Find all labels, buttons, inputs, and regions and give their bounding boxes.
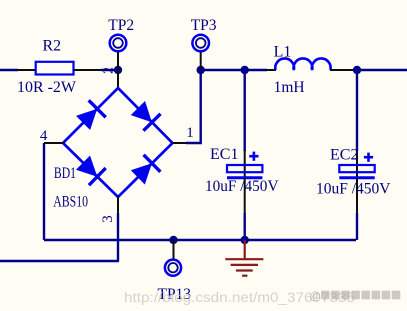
pin EC2 top xyxy=(356,150,358,178)
wire R2 to node TP2 xyxy=(101,69,118,71)
testpoint TP13 xyxy=(165,260,181,276)
testpoint TP3 xyxy=(192,35,209,52)
node EC2 junction xyxy=(353,66,361,74)
node ground junction xyxy=(241,236,249,244)
ground xyxy=(225,240,263,276)
svg-text:3: 3 xyxy=(100,215,116,223)
pin bridge 4 xyxy=(44,142,64,144)
svg-text:EC1: EC1 xyxy=(210,146,239,163)
wire EC2 node down xyxy=(356,70,358,151)
node EC1 junction xyxy=(241,66,249,74)
wire AC input left to R2 xyxy=(0,69,18,71)
pin bridge 2 xyxy=(117,70,119,89)
plus sign EC2 xyxy=(364,153,373,162)
node TP3 junction xyxy=(197,66,205,74)
watermark community badge xyxy=(310,291,401,303)
wire EC1 node to L1 xyxy=(245,69,267,71)
svg-text:L1: L1 xyxy=(274,43,292,60)
svg-text:BD1: BD1 xyxy=(54,165,76,182)
svg-text:ABS10: ABS10 xyxy=(53,193,88,210)
wire EC1 to bus xyxy=(243,213,245,240)
svg-text:10R -2W: 10R -2W xyxy=(17,79,77,96)
svg-text:1: 1 xyxy=(186,125,194,141)
wire pin3 down xyxy=(117,213,119,261)
wire TP3 node to EC1 node xyxy=(201,69,245,71)
testpoint TP2 xyxy=(110,35,127,52)
wire bottom bus xyxy=(44,239,356,241)
capacitor EC2 xyxy=(339,165,374,178)
capacitor EC1 xyxy=(227,165,262,178)
wire EC1 node down xyxy=(243,70,245,151)
pin TP13 xyxy=(173,240,175,259)
bridge BD1 diamond xyxy=(63,88,173,197)
plus sign EC1 xyxy=(249,152,258,161)
pin R2 left xyxy=(17,69,36,71)
diode D top-left xyxy=(76,100,106,130)
svg-text:TP3: TP3 xyxy=(191,17,217,34)
wire pin4 down to bottom bus xyxy=(43,143,45,240)
wire AC input 2 from left edge xyxy=(0,260,119,263)
svg-text:@: @ xyxy=(310,291,321,303)
wire L1 to right edge xyxy=(357,69,407,71)
node TP13 junction xyxy=(169,236,177,244)
inductor L1 xyxy=(275,58,330,70)
svg-text:EC2: EC2 xyxy=(330,146,359,163)
node TP2 junction xyxy=(114,66,122,74)
svg-text:10uF /450V: 10uF /450V xyxy=(205,178,279,195)
pin L1 left xyxy=(266,69,276,71)
wire pin1 to node TP3 xyxy=(186,70,201,143)
diode D bottom-right xyxy=(131,155,161,185)
svg-text:10uF /450V: 10uF /450V xyxy=(316,181,391,198)
pin EC1 bottom xyxy=(244,178,246,214)
svg-text:1mH: 1mH xyxy=(274,79,305,96)
pin bridge 3 xyxy=(117,197,119,215)
resistor R2 xyxy=(36,62,74,75)
svg-text:4: 4 xyxy=(40,128,48,144)
pin L1 right xyxy=(330,69,353,71)
pin R2 right xyxy=(74,69,104,71)
pin TP2 xyxy=(117,53,119,71)
diode D top-right xyxy=(131,101,161,131)
pin bridge 1 xyxy=(172,142,187,144)
svg-text:R2: R2 xyxy=(43,38,62,55)
diode D bottom-left xyxy=(76,156,106,186)
pin TP3 xyxy=(200,53,202,71)
pin EC2 bottom xyxy=(356,178,358,214)
wire EC2 to bus xyxy=(356,213,358,240)
pin EC1 top xyxy=(244,150,246,178)
svg-text:TP2: TP2 xyxy=(108,17,134,34)
